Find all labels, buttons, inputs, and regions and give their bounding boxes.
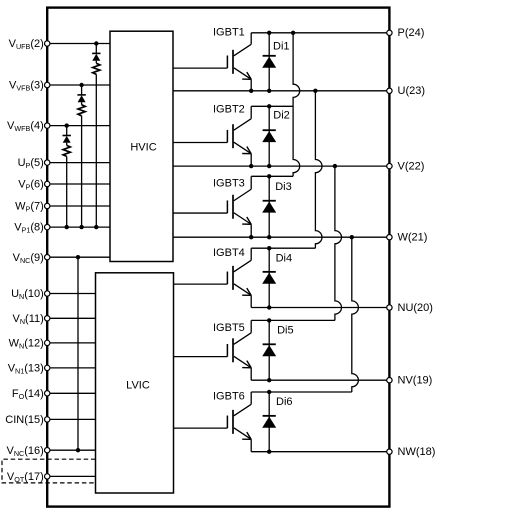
svg-text:LVIC: LVIC — [126, 380, 150, 392]
svg-text:VN(11): VN(11) — [13, 313, 44, 326]
svg-text:V(22): V(22) — [398, 161, 425, 173]
svg-text:VWFB(4): VWFB(4) — [7, 120, 44, 133]
svg-text:NW(18): NW(18) — [398, 446, 436, 458]
svg-text:IGBT3: IGBT3 — [213, 178, 245, 190]
svg-text:P(24): P(24) — [398, 27, 425, 39]
svg-text:IGBT5: IGBT5 — [213, 322, 245, 334]
svg-text:UN(10): UN(10) — [11, 288, 44, 301]
svg-text:WP(7): WP(7) — [15, 201, 44, 214]
svg-text:IGBT6: IGBT6 — [213, 391, 245, 403]
svg-text:VP1(8): VP1(8) — [14, 222, 44, 235]
svg-text:Di6: Di6 — [276, 396, 293, 408]
svg-text:Di1: Di1 — [273, 41, 290, 53]
svg-text:IGBT2: IGBT2 — [213, 103, 245, 115]
svg-text:Di3: Di3 — [275, 181, 292, 193]
svg-text:FO(14): FO(14) — [12, 388, 44, 401]
svg-text:Di5: Di5 — [277, 324, 294, 336]
svg-text:CIN(15): CIN(15) — [5, 414, 44, 426]
svg-text:VP(6): VP(6) — [18, 179, 44, 192]
svg-text:NU(20): NU(20) — [398, 302, 433, 314]
svg-text:VNC(9): VNC(9) — [13, 252, 44, 265]
svg-text:VOT(17): VOT(17) — [7, 471, 44, 484]
svg-text:VNC(16): VNC(16) — [7, 445, 44, 458]
svg-text:HVIC: HVIC — [130, 142, 156, 154]
svg-text:IGBT4: IGBT4 — [213, 247, 245, 259]
svg-text:VN1(13): VN1(13) — [8, 363, 44, 376]
svg-text:VVFB(3): VVFB(3) — [9, 80, 44, 93]
svg-text:IGBT1: IGBT1 — [213, 27, 245, 39]
svg-text:NV(19): NV(19) — [398, 375, 433, 387]
svg-text:WN(12): WN(12) — [9, 338, 44, 351]
svg-text:Di2: Di2 — [273, 110, 290, 122]
svg-text:UP(5): UP(5) — [18, 157, 44, 170]
svg-text:Di4: Di4 — [276, 252, 293, 264]
svg-text:VUFB(2): VUFB(2) — [9, 38, 44, 51]
svg-text:U(23): U(23) — [398, 85, 426, 97]
svg-text:W(21): W(21) — [398, 232, 428, 244]
